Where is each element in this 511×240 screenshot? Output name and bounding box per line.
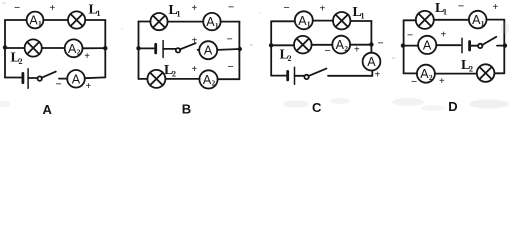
wire bbox=[59, 78, 67, 80]
battery bbox=[288, 67, 295, 84]
wire bbox=[168, 21, 204, 23]
wire bbox=[163, 48, 176, 50]
svg-text:2: 2 bbox=[288, 54, 292, 63]
wire bbox=[404, 19, 416, 21]
ammeter A1 bbox=[27, 12, 44, 29]
ammeter A bbox=[199, 41, 217, 59]
wire bbox=[5, 19, 27, 21]
wire bbox=[350, 44, 371, 46]
wire bbox=[403, 45, 418, 47]
wire bbox=[470, 45, 479, 47]
svg-text:1: 1 bbox=[215, 21, 219, 30]
wire bbox=[370, 21, 372, 44]
wire bbox=[5, 77, 22, 79]
svg-text:+: + bbox=[441, 30, 447, 41]
wire bbox=[497, 45, 505, 47]
wire bbox=[403, 20, 405, 73]
node junction bbox=[238, 47, 242, 51]
svg-text:A: A bbox=[367, 55, 376, 69]
lamp L2 bbox=[294, 36, 312, 54]
ammeter A2 bbox=[417, 65, 435, 83]
node junction bbox=[503, 43, 507, 47]
lamp L1 bbox=[416, 11, 434, 29]
node junction bbox=[369, 42, 373, 46]
svg-text:A: A bbox=[72, 72, 81, 86]
svg-text:1: 1 bbox=[38, 19, 42, 28]
svg-text:1: 1 bbox=[443, 8, 447, 17]
wire bbox=[404, 72, 417, 74]
svg-text:A: A bbox=[204, 44, 213, 58]
wire bbox=[198, 49, 200, 51]
wire bbox=[139, 78, 148, 80]
svg-text:−: − bbox=[56, 79, 62, 91]
ammeter A bbox=[363, 53, 381, 71]
svg-text:−: − bbox=[284, 2, 290, 14]
label L1 bbox=[89, 3, 101, 19]
battery bbox=[156, 41, 163, 58]
svg-text:2: 2 bbox=[344, 44, 348, 53]
wire bbox=[238, 22, 240, 79]
svg-text:+: + bbox=[354, 45, 360, 56]
wire bbox=[165, 78, 199, 80]
wire bbox=[43, 19, 68, 21]
wire bbox=[221, 21, 240, 23]
wire bbox=[487, 19, 505, 21]
svg-text:+: + bbox=[375, 70, 381, 81]
ammeter A1 bbox=[203, 13, 220, 30]
svg-text:−: − bbox=[14, 2, 20, 14]
svg-text:2: 2 bbox=[172, 70, 176, 79]
svg-text:−: − bbox=[411, 76, 417, 88]
wire bbox=[138, 22, 140, 80]
ammeter A1 bbox=[295, 11, 313, 29]
ammeter A2 bbox=[332, 36, 350, 54]
wire bbox=[271, 44, 294, 46]
wire bbox=[218, 78, 240, 80]
svg-text:+: + bbox=[84, 51, 90, 62]
wire bbox=[350, 20, 371, 22]
switch bbox=[478, 37, 496, 48]
svg-text:−: − bbox=[407, 30, 413, 42]
wire bbox=[271, 20, 295, 22]
wire bbox=[270, 21, 272, 75]
svg-text:B: B bbox=[182, 102, 191, 117]
label L2 bbox=[461, 58, 473, 74]
svg-text:1: 1 bbox=[177, 10, 181, 19]
ammeter A bbox=[67, 70, 85, 88]
svg-text:−: − bbox=[325, 45, 331, 57]
svg-text:+: + bbox=[493, 2, 499, 13]
svg-text:+: + bbox=[439, 76, 445, 87]
svg-text:−: − bbox=[228, 61, 234, 73]
svg-text:+: + bbox=[320, 4, 326, 15]
wire bbox=[503, 20, 505, 74]
wire bbox=[28, 77, 37, 79]
svg-text:1: 1 bbox=[97, 9, 101, 18]
wire bbox=[370, 47, 372, 53]
svg-text:+: + bbox=[192, 36, 198, 47]
wire bbox=[217, 48, 240, 51]
svg-text:2: 2 bbox=[469, 65, 473, 74]
node junction bbox=[269, 43, 273, 47]
svg-text:C: C bbox=[312, 100, 322, 115]
wire bbox=[436, 44, 460, 46]
switch bbox=[38, 72, 56, 81]
wire bbox=[328, 70, 372, 75]
wire bbox=[313, 20, 333, 22]
wire bbox=[139, 21, 151, 23]
wire bbox=[83, 47, 106, 49]
svg-text:−: − bbox=[228, 2, 234, 14]
label L1 bbox=[353, 5, 365, 21]
label L2 bbox=[280, 48, 292, 64]
wire bbox=[5, 47, 25, 49]
wire bbox=[435, 73, 477, 75]
lamp L2 bbox=[477, 64, 495, 82]
wire bbox=[271, 75, 286, 77]
wire bbox=[42, 47, 65, 49]
svg-text:+: + bbox=[192, 3, 198, 14]
battery bbox=[462, 38, 470, 52]
svg-text:+: + bbox=[86, 81, 92, 92]
ammeter A1 bbox=[469, 11, 487, 29]
lamp L2 bbox=[25, 39, 42, 56]
svg-text:A: A bbox=[423, 38, 432, 52]
lamp L1 bbox=[333, 12, 350, 29]
lamp L1 bbox=[68, 11, 85, 28]
scan smudges (decorative) bbox=[0, 2, 509, 111]
svg-text:−: − bbox=[227, 34, 233, 46]
svg-text:+: + bbox=[50, 3, 56, 14]
label L1 bbox=[169, 3, 181, 19]
svg-text:D: D bbox=[448, 99, 457, 114]
ammeter A2 bbox=[199, 70, 217, 88]
wire bbox=[434, 19, 469, 21]
svg-text:2: 2 bbox=[212, 79, 216, 88]
wire bbox=[104, 20, 106, 77]
node junction bbox=[401, 43, 405, 47]
wire bbox=[295, 75, 305, 77]
wire bbox=[85, 76, 106, 79]
wire bbox=[494, 72, 504, 74]
svg-text:1: 1 bbox=[307, 20, 311, 29]
label L1 bbox=[435, 1, 447, 17]
ammeter A bbox=[418, 36, 436, 54]
svg-text:2: 2 bbox=[19, 57, 23, 66]
svg-text:−: − bbox=[458, 1, 464, 13]
wire bbox=[312, 44, 333, 46]
label L2 bbox=[164, 63, 176, 79]
svg-text:2: 2 bbox=[429, 73, 433, 82]
wire bbox=[85, 19, 105, 21]
lamp L2 bbox=[147, 70, 165, 88]
switch bbox=[304, 69, 326, 80]
node junction bbox=[3, 45, 7, 49]
ammeter A2 bbox=[65, 39, 83, 57]
svg-text:−: − bbox=[378, 38, 384, 50]
node junction bbox=[103, 46, 107, 50]
switch bbox=[176, 43, 196, 52]
battery bbox=[23, 69, 28, 89]
lamp L1 bbox=[150, 13, 167, 30]
label L2 bbox=[11, 51, 23, 67]
wire bbox=[4, 20, 6, 78]
svg-text:1: 1 bbox=[481, 19, 485, 28]
svg-text:1: 1 bbox=[361, 12, 365, 21]
svg-text:+: + bbox=[192, 64, 198, 75]
svg-text:2: 2 bbox=[77, 48, 81, 57]
svg-text:A: A bbox=[43, 102, 53, 117]
node junction bbox=[136, 46, 140, 50]
wire bbox=[139, 47, 155, 49]
